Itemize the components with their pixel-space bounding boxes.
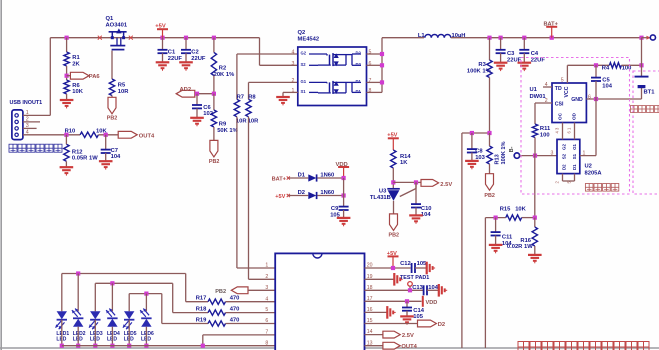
ground under C9 bbox=[337, 218, 351, 226]
test pad circle PAD1 bbox=[408, 282, 413, 287]
node junction B- R11 bbox=[533, 154, 537, 158]
svg-text:R17: R17 bbox=[196, 296, 207, 302]
resistor R3 bbox=[487, 60, 492, 78]
wire C6 to ground bbox=[196, 108, 198, 117]
label R16 0.02R 1W bbox=[507, 238, 533, 250]
label R8 value 10R bbox=[248, 119, 259, 125]
svg-text:4: 4 bbox=[265, 296, 268, 302]
label R15 bbox=[500, 207, 511, 213]
node junction R2 tap bbox=[212, 36, 216, 40]
tag PB2 at IC pin3 bbox=[231, 287, 248, 294]
resistor R14 bbox=[391, 150, 396, 168]
wire rail to R1 bbox=[66, 38, 68, 52]
wire rail to C4 bbox=[523, 38, 525, 50]
capacitor C5 bbox=[591, 78, 601, 81]
label R3 100K 1% bbox=[467, 62, 491, 74]
node junction R16 top bbox=[533, 216, 537, 220]
label U1 bbox=[530, 87, 547, 100]
wire U2 S1 to GND net bbox=[580, 99, 596, 156]
wire R17 to IC pin4 bbox=[226, 301, 276, 303]
wire C7 to ground bbox=[105, 153, 107, 161]
power VDD sideways at pin17 bbox=[422, 296, 424, 307]
node junction pin20 bbox=[391, 266, 395, 270]
label C9 105 bbox=[330, 206, 340, 218]
resistor R1 bbox=[64, 52, 69, 66]
wire to C11 bbox=[495, 218, 497, 233]
node junction C8 tap bbox=[470, 131, 474, 135]
ground under R12 bbox=[60, 167, 74, 175]
resistor R10 bbox=[80, 132, 98, 137]
label AD2 tag bbox=[180, 87, 192, 93]
node junction LED1 bottom bbox=[60, 344, 64, 348]
pin number U4-3 bbox=[265, 285, 268, 291]
pin number U2-1 bbox=[583, 150, 586, 156]
pin number U2-3 bbox=[551, 150, 554, 156]
wire USB pin1 riser bbox=[23, 38, 50, 116]
ground sideways at pin20 bbox=[427, 262, 435, 275]
svg-text:8: 8 bbox=[369, 88, 372, 94]
label TEST PAD1 bbox=[400, 275, 429, 281]
svg-text:105: 105 bbox=[417, 261, 427, 267]
svg-text:PB2: PB2 bbox=[389, 232, 400, 238]
wire R19 to IC pin6 bbox=[226, 323, 276, 325]
pin number U1-4 bbox=[545, 82, 548, 88]
ground under C7 bbox=[99, 161, 113, 169]
svg-text:U1: U1 bbox=[530, 87, 538, 93]
ERC arrow at B+ bbox=[646, 36, 649, 39]
label R17 bbox=[196, 296, 207, 302]
svg-text:470: 470 bbox=[230, 307, 240, 313]
pin number U1-2 bbox=[545, 98, 548, 104]
label +5V at pin20 bbox=[387, 251, 397, 257]
wire Q2 pin7 bbox=[367, 81, 383, 83]
svg-text:R7: R7 bbox=[237, 95, 244, 101]
svg-text:8: 8 bbox=[265, 340, 268, 346]
inductor L1 bbox=[425, 34, 451, 37]
svg-text:Q2: Q2 bbox=[298, 30, 306, 36]
node junction C4 tap bbox=[522, 36, 526, 40]
label PB2 below R9 bbox=[209, 159, 220, 165]
label R14 1K bbox=[400, 154, 411, 166]
node junction C1 tap bbox=[160, 36, 164, 40]
svg-text:R19: R19 bbox=[196, 317, 207, 323]
label R5 10R bbox=[118, 83, 129, 95]
label R2 20K 1% bbox=[214, 65, 235, 77]
ground under C11 bbox=[489, 245, 503, 253]
wire USB pin3 stub bbox=[23, 127, 37, 129]
wire U1 CSI stub bbox=[535, 102, 552, 104]
sheet border left bbox=[0, 0, 2, 350]
wire LED2 anode bbox=[77, 274, 79, 312]
transistor U2 8205A dual MOSFET bbox=[557, 139, 580, 173]
capacitor C8 bbox=[467, 149, 477, 152]
svg-text:0.05R 1W: 0.05R 1W bbox=[72, 156, 98, 162]
svg-text:5: 5 bbox=[265, 307, 268, 313]
text company name red bbox=[518, 342, 649, 350]
ground sideways at pin16 bbox=[387, 306, 395, 319]
label PB2 at IC pin3 bbox=[215, 289, 226, 295]
svg-text:OC: OC bbox=[558, 112, 563, 120]
label D1 value 1N60 bbox=[320, 172, 334, 178]
resistor R6 bbox=[64, 80, 69, 94]
label LED5 bbox=[124, 331, 137, 343]
label USB INOUT1 bbox=[10, 100, 43, 106]
node junction LED5 bottom bbox=[127, 344, 131, 348]
resistor R19 bbox=[208, 321, 226, 326]
text 电池保护 bbox=[585, 184, 618, 192]
power +5V above R14 bbox=[388, 138, 399, 150]
node junction BT1 tap bbox=[639, 36, 643, 40]
svg-text:22UF: 22UF bbox=[168, 56, 183, 62]
svg-text:R1: R1 bbox=[72, 55, 80, 61]
wire U2 drains joined bbox=[563, 174, 575, 181]
wire R18 to IC pin5 bbox=[226, 312, 276, 314]
label D1 bbox=[298, 172, 306, 178]
capacitor C14 bbox=[402, 308, 412, 311]
label R13 100K 1% rotated bbox=[494, 141, 507, 164]
svg-text:VCC: VCC bbox=[564, 86, 570, 97]
node junction D1 cathode bbox=[342, 176, 346, 180]
svg-text:10R: 10R bbox=[236, 119, 247, 125]
svg-text:OD: OD bbox=[572, 112, 577, 120]
pin number U2-5 bbox=[567, 181, 572, 184]
wire IC pin19 row bbox=[365, 278, 395, 280]
wire C8 row bbox=[462, 132, 490, 134]
svg-text:2K: 2K bbox=[72, 61, 80, 67]
wire BAT+ to D1 bbox=[288, 177, 308, 179]
wire LED6 anode bbox=[145, 294, 147, 312]
node junction LED6 top bbox=[144, 292, 148, 296]
svg-text:G2: G2 bbox=[301, 51, 307, 56]
svg-text:D1: D1 bbox=[572, 164, 577, 170]
svg-text:G1: G1 bbox=[572, 144, 577, 150]
svg-text:D2: D2 bbox=[298, 190, 305, 196]
svg-text:C9: C9 bbox=[331, 206, 339, 212]
svg-text:100K 1%: 100K 1% bbox=[501, 141, 507, 164]
label PB2 below U3 bbox=[389, 232, 400, 238]
svg-text:5: 5 bbox=[369, 50, 372, 56]
wire bottom rail to IC pin8 bbox=[62, 345, 275, 347]
text 外接电池 bbox=[631, 106, 659, 113]
label C2 22UF bbox=[191, 50, 206, 62]
wire R12 to ground bbox=[65, 161, 67, 167]
svg-text:R5: R5 bbox=[118, 83, 126, 89]
resistor R2 bbox=[211, 52, 216, 75]
resistor R4 bbox=[609, 63, 621, 68]
wire R11 bottom to B- and R15 column bbox=[534, 156, 536, 218]
wire R11 to B- node bbox=[534, 138, 536, 156]
wire U1 OD to U2 G1 bbox=[574, 123, 576, 140]
label VDD above diodes bbox=[336, 162, 348, 168]
resistor R18 bbox=[208, 310, 226, 315]
pin number U4-16 bbox=[367, 307, 373, 313]
label R4 bbox=[602, 65, 610, 71]
tag OUT4 at pin13 bbox=[383, 342, 400, 349]
label D2 value 1N60 bbox=[320, 190, 334, 196]
wire LED5 cathode bbox=[128, 320, 130, 346]
label L1 bbox=[418, 33, 426, 39]
resistor R16 bbox=[532, 227, 537, 246]
svg-text:0.02R 1W: 0.02R 1W bbox=[507, 244, 533, 250]
label R17 value 470 bbox=[230, 296, 240, 302]
wire U1 OC to U2 G2 bbox=[562, 123, 564, 140]
wire AD2 row bbox=[195, 93, 214, 95]
power VDD above diodes bbox=[338, 167, 349, 178]
pin number USB-2 bbox=[26, 117, 29, 123]
svg-text:C10: C10 bbox=[421, 206, 432, 212]
ground under C2 bbox=[179, 62, 193, 70]
label R10 value 10K bbox=[96, 129, 107, 135]
label R12 0.05R 1W bbox=[72, 149, 98, 161]
svg-text:PB2: PB2 bbox=[209, 159, 220, 165]
ground under C3 bbox=[494, 63, 508, 71]
wire LED4 cathode bbox=[111, 327, 113, 346]
label R11 100 bbox=[540, 126, 551, 138]
wire LED6 cathode bbox=[145, 327, 147, 346]
svg-text:Q1: Q1 bbox=[106, 16, 115, 22]
connector USB INOUT1 body bbox=[12, 110, 23, 140]
wire U3 anode to PB2 bbox=[393, 201, 395, 214]
svg-text:+5V: +5V bbox=[387, 132, 397, 138]
svg-text:R9: R9 bbox=[219, 122, 227, 128]
label PB2 below R5 bbox=[107, 115, 118, 121]
svg-text:BAT+: BAT+ bbox=[544, 21, 559, 27]
wire LED rail 3 bbox=[129, 294, 208, 324]
svg-text:C7: C7 bbox=[111, 148, 118, 154]
label Q1 bbox=[106, 16, 128, 29]
pin number U4-5 bbox=[265, 307, 268, 313]
node junction pin17 bbox=[405, 299, 409, 303]
wire IC pin7 row bbox=[203, 335, 275, 346]
svg-text:GND: GND bbox=[571, 97, 583, 103]
node junction R4 right bbox=[639, 63, 643, 67]
label LED2 bbox=[73, 331, 86, 343]
label C8 103 bbox=[475, 149, 485, 161]
wire VDD node to C9 bbox=[343, 178, 345, 207]
tag 2.5V at U3 bbox=[421, 180, 439, 187]
label LED4 bbox=[107, 331, 120, 343]
svg-text:R6: R6 bbox=[72, 83, 80, 89]
wire rail to C2 bbox=[185, 38, 187, 50]
pin number Q2-8 bbox=[369, 88, 372, 94]
wire rail to R2 bbox=[213, 38, 215, 53]
transistor Q2 ME4542 dual MOSFET bbox=[298, 47, 367, 106]
svg-text:22UF: 22UF bbox=[531, 57, 546, 63]
wire B- row bbox=[520, 155, 557, 157]
svg-text:3: 3 bbox=[265, 285, 268, 291]
resistor R7 bbox=[234, 99, 239, 117]
node junction pin7 drop bbox=[201, 344, 205, 348]
pin number U4-19 bbox=[367, 274, 373, 280]
wire D1 to VDD node bbox=[318, 177, 344, 179]
capacitor C4 bbox=[519, 50, 529, 53]
wire rail to R3 bbox=[489, 38, 491, 60]
wire long vertical right bbox=[484, 218, 486, 348]
capacitor C6 bbox=[192, 105, 202, 108]
label C13 bbox=[412, 285, 423, 291]
svg-text:D1: D1 bbox=[356, 79, 362, 84]
svg-text:PB2: PB2 bbox=[107, 115, 118, 121]
diode D1 1N60 bbox=[308, 174, 316, 181]
svg-text:S1: S1 bbox=[301, 89, 307, 94]
power +5V at C1 bbox=[157, 29, 168, 38]
wire C14 to ground bbox=[406, 311, 408, 317]
svg-text:C6: C6 bbox=[203, 105, 211, 111]
label R9 50K 1% bbox=[217, 122, 238, 134]
transistor Q1 AO3401 P-MOSFET bbox=[109, 28, 127, 49]
wire R13 to PB2 bbox=[489, 164, 491, 174]
resistor R9 bbox=[211, 110, 216, 127]
svg-text:R8: R8 bbox=[248, 95, 256, 101]
label C10 104 bbox=[421, 206, 432, 218]
label R7 value 10R bbox=[236, 119, 247, 125]
label OUT4 at pin13 bbox=[401, 344, 417, 350]
pin number U4-4 bbox=[265, 296, 268, 302]
wire Q2 pin5 bbox=[367, 53, 383, 55]
op-amp U1 DW01 battery protection IC bbox=[552, 83, 586, 123]
capacitor C10 bbox=[411, 204, 421, 207]
svg-text:10K: 10K bbox=[515, 207, 526, 213]
svg-text:D2: D2 bbox=[438, 322, 445, 328]
wire Q1 gate to R5 bbox=[111, 51, 113, 79]
op-amp U3 TL431 shunt ref bbox=[387, 189, 400, 201]
wire Q2 G2 row bbox=[237, 54, 298, 99]
wire R8 to IC pin2 bbox=[249, 117, 276, 279]
IC U4 main controller body bbox=[275, 253, 364, 350]
sheet border bottom bbox=[0, 347, 659, 349]
svg-text:8205A: 8205A bbox=[585, 170, 603, 176]
svg-text:VDD: VDD bbox=[336, 162, 348, 168]
label C6 102 bbox=[203, 105, 213, 117]
wire main +rail y38 bbox=[50, 37, 259, 39]
wire node to R12 bbox=[65, 135, 67, 144]
node junction R3 tap bbox=[487, 36, 491, 40]
pin number U4-15 bbox=[367, 318, 373, 324]
wire corner to Q2 S2 bbox=[260, 38, 298, 66]
node junction C7 tap bbox=[104, 133, 108, 137]
wire IC pin20 row bbox=[365, 267, 411, 269]
svg-text:+5V: +5V bbox=[275, 194, 285, 200]
pin number Q2-3 bbox=[292, 61, 295, 67]
svg-text:R4: R4 bbox=[602, 65, 610, 71]
ground under C1 bbox=[156, 62, 170, 70]
node junction BAT+ tap bbox=[550, 36, 554, 40]
svg-text:50K 1%: 50K 1% bbox=[217, 128, 238, 134]
ground under C10 bbox=[409, 215, 423, 223]
ERC marker at Q1 source bbox=[98, 36, 102, 40]
node junction LED3 bottom bbox=[93, 344, 97, 348]
svg-text:6 1: 6 1 bbox=[567, 127, 572, 133]
tag PB2 below R5 bbox=[108, 97, 116, 114]
svg-text:1: 1 bbox=[265, 263, 268, 269]
pin number U4-7 bbox=[265, 330, 268, 336]
label R18 bbox=[196, 307, 207, 313]
tag 2.5V at pin14 bbox=[383, 331, 400, 338]
label C3 22UF bbox=[507, 51, 522, 63]
dashed box 电池保护 bbox=[521, 58, 630, 195]
svg-text:AD2: AD2 bbox=[180, 87, 192, 93]
svg-text:C5: C5 bbox=[602, 77, 610, 83]
wire R14 to 2.5V node bbox=[392, 168, 394, 189]
label B- bbox=[509, 146, 515, 152]
wire rail to C1 bbox=[162, 38, 164, 50]
wire R3 down to C8 row bbox=[489, 78, 491, 134]
wire U1 VCC stub bbox=[566, 65, 568, 83]
ERC marker at D2 wire bbox=[287, 194, 290, 197]
wire Q2 G1 row bbox=[249, 82, 298, 99]
pin number USB-3 bbox=[26, 123, 29, 129]
capacitor C12 bbox=[412, 263, 415, 273]
node junction C3 tap bbox=[499, 36, 503, 40]
battery BT1 bbox=[635, 77, 649, 87]
wire to R16 bbox=[534, 218, 536, 227]
wire C10 to ground bbox=[415, 208, 417, 216]
pin number Q2-4 bbox=[292, 50, 295, 56]
svg-text:C13: C13 bbox=[412, 285, 423, 291]
label C7 104 bbox=[111, 148, 121, 160]
label 2.5V tag at U3 bbox=[440, 182, 452, 188]
svg-text:105: 105 bbox=[413, 314, 423, 320]
label LED6 bbox=[141, 331, 154, 343]
wire R10 to OUT4 tag bbox=[98, 134, 118, 136]
ground under R16 bbox=[528, 255, 542, 263]
ground under C8 bbox=[465, 161, 479, 169]
svg-text:OUT4: OUT4 bbox=[401, 344, 417, 350]
label LED3 bbox=[90, 331, 103, 343]
pin number Q2-7 bbox=[369, 78, 372, 84]
wire R6 to ground bbox=[66, 94, 68, 100]
wire L1 to B+ terminal bbox=[451, 37, 642, 39]
wire LED5 anode bbox=[128, 294, 130, 312]
svg-text:PB2: PB2 bbox=[215, 289, 226, 295]
pin number U2-2 bbox=[555, 181, 560, 184]
svg-text:D2: D2 bbox=[356, 51, 362, 56]
diode D2 1N60 bbox=[308, 192, 316, 199]
svg-text:VDD: VDD bbox=[426, 300, 438, 306]
pin number U1-3 U2-6 bbox=[567, 127, 572, 133]
label R18 value 470 bbox=[230, 307, 240, 313]
label C12 value 105 bbox=[417, 261, 427, 267]
label +5V at C1 bbox=[155, 23, 166, 29]
pin number U4-17 bbox=[367, 296, 373, 302]
pin number U4-6 bbox=[265, 318, 268, 324]
ERC marker at D1 wire bbox=[287, 176, 290, 179]
ground under C6 bbox=[190, 118, 204, 126]
node junction PA6 bbox=[65, 74, 69, 78]
wire C5 to GND row bbox=[595, 81, 597, 99]
capacitor C1 bbox=[158, 50, 168, 53]
terminal B- circle bbox=[514, 153, 519, 158]
svg-text:4 3: 4 3 bbox=[555, 127, 560, 133]
svg-text:R16: R16 bbox=[520, 238, 531, 244]
svg-text:R18: R18 bbox=[196, 307, 207, 313]
wire IC pin16 row bbox=[365, 311, 388, 313]
label D2 bbox=[298, 190, 305, 196]
resistor R13 bbox=[487, 146, 492, 164]
node junction R14 bottom bbox=[391, 180, 395, 184]
LED2 bbox=[72, 309, 84, 327]
wire IC pin17 row bbox=[365, 300, 422, 302]
svg-text:R15: R15 bbox=[500, 207, 511, 213]
svg-text:22UF: 22UF bbox=[191, 56, 206, 62]
ground under C4 bbox=[518, 63, 532, 71]
wire C3 to ground bbox=[500, 53, 502, 63]
svg-text:20K 1%: 20K 1% bbox=[214, 72, 235, 78]
pin number U4-18 bbox=[367, 285, 373, 291]
svg-text:10K: 10K bbox=[72, 89, 83, 95]
svg-text:S1: S1 bbox=[572, 153, 577, 159]
svg-text:104: 104 bbox=[111, 154, 121, 160]
